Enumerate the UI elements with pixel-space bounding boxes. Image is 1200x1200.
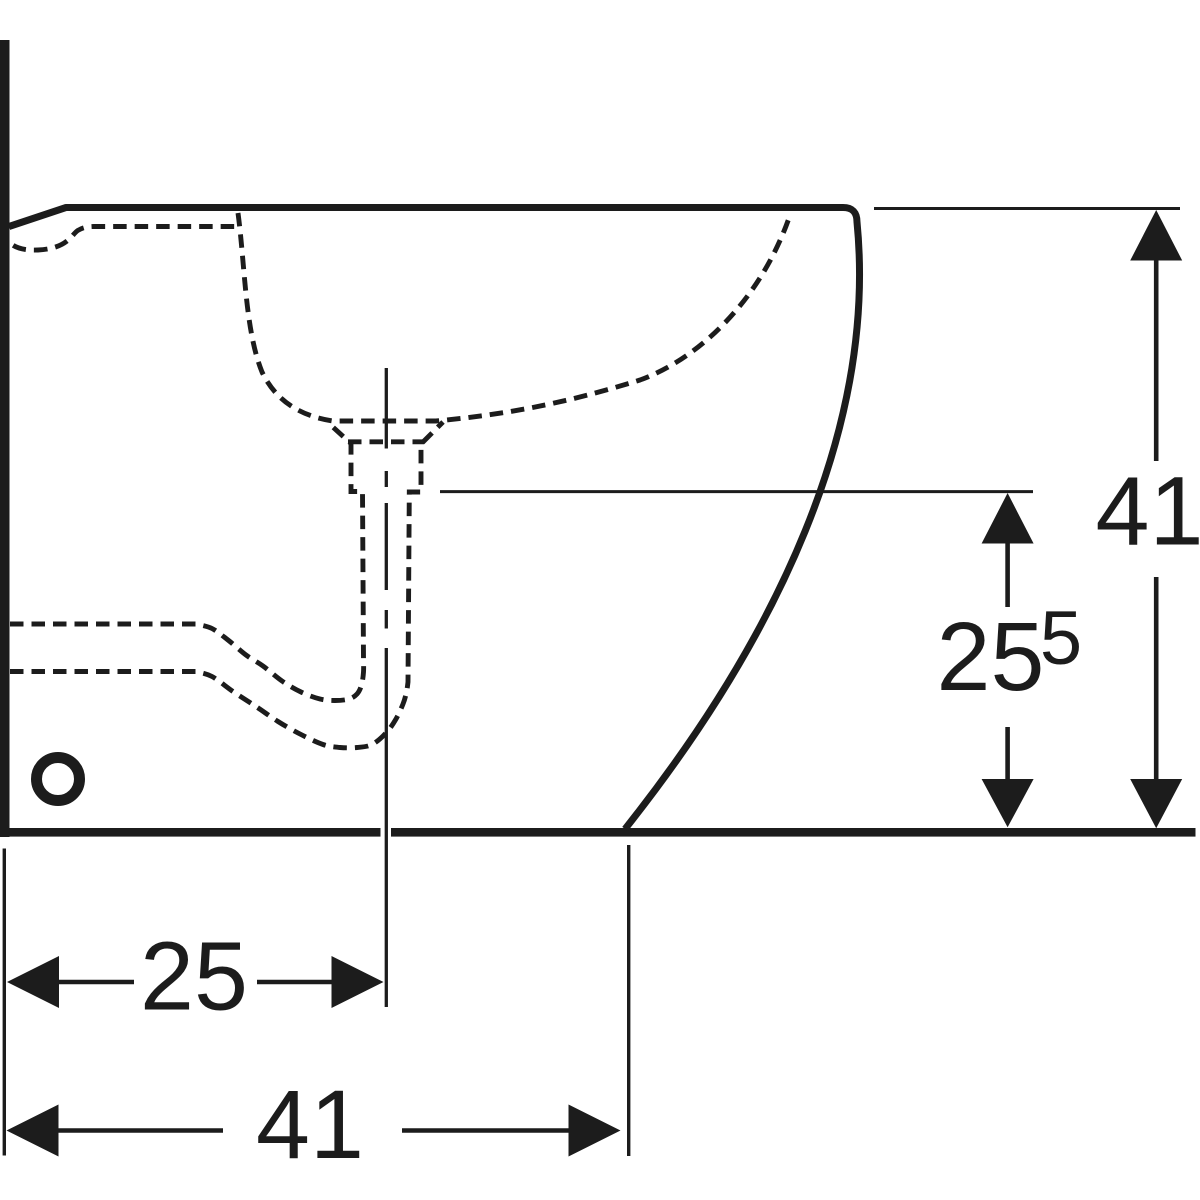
svg-text:25: 25 <box>937 602 1045 711</box>
svg-text:5: 5 <box>1040 596 1082 681</box>
svg-text:41: 41 <box>256 1070 364 1179</box>
svg-text:25: 25 <box>140 922 248 1031</box>
svg-text:41: 41 <box>1096 457 1200 566</box>
